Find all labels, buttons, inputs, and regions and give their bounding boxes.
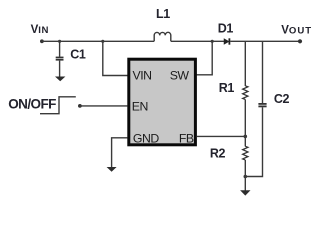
wire VIN to L1 (42, 40, 154, 42)
ground U1 (107, 167, 117, 172)
node VIN (31, 24, 49, 43)
svg-text:L1: L1 (156, 7, 170, 21)
wire FB (197, 135, 246, 137)
svg-text:VOUT: VOUT (281, 24, 312, 36)
svg-text:C2: C2 (274, 92, 290, 106)
capacitor C2 (258, 92, 289, 108)
wire VOUT node to C2 (262, 41, 264, 103)
wire GND pin (112, 138, 128, 168)
wire to U1 VIN pin (103, 41, 128, 75)
wire C1 branch (59, 41, 61, 57)
wire EN (80, 105, 128, 107)
wire R1 to FB node (244, 100, 246, 147)
wire C1 to ground (59, 61, 61, 78)
wire L1 to D1 (171, 40, 225, 42)
resistor R2 (210, 146, 248, 160)
wire VOUT node to R1 (244, 41, 246, 86)
junction SW node (211, 40, 214, 43)
IC U1 regulator body (129, 59, 196, 145)
svg-text:EN: EN (132, 100, 148, 114)
svg-text:ON/OFF: ON/OFF (8, 97, 56, 112)
diode D1 (218, 22, 234, 45)
wire C2 to ground node (245, 107, 262, 176)
inductor L1 (154, 7, 171, 41)
resistor R1 (219, 81, 248, 100)
svg-text:VIN: VIN (133, 69, 152, 83)
svg-text:R1: R1 (219, 81, 235, 95)
capacitor C1 (56, 47, 86, 61)
svg-text:D1: D1 (218, 22, 234, 36)
wire R2 to ground node (244, 160, 246, 177)
junction U1 VIN tap (101, 40, 104, 43)
node EN source (78, 104, 82, 108)
junction output ground node (244, 175, 248, 179)
svg-text:VIN: VIN (31, 24, 49, 36)
junction FB node (244, 135, 248, 139)
wire D1 to VOUT (230, 40, 300, 42)
svg-text:SW: SW (170, 69, 190, 83)
ground output (240, 190, 250, 195)
signal ON/OFF label (8, 97, 76, 114)
junction C1 tap (58, 40, 61, 43)
node VOUT (281, 24, 312, 43)
svg-text:C1: C1 (70, 47, 86, 61)
svg-text:GND: GND (133, 131, 159, 145)
wire ground stem (244, 177, 246, 192)
svg-text:R2: R2 (210, 147, 226, 161)
ground C1 (55, 77, 65, 82)
svg-text:FB: FB (179, 131, 194, 145)
wire SW riser (197, 41, 213, 75)
